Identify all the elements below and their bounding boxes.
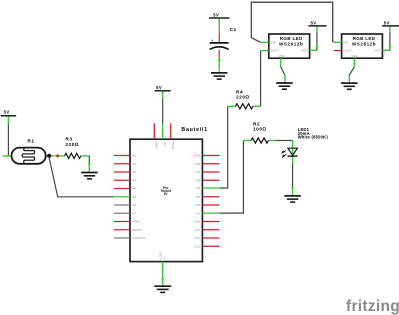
wire C1 to ground — [218, 59, 220, 71]
pin D11 — [202, 229, 219, 231]
wire R4 to U2 DOUT — [260, 51, 262, 107]
ground GND1 (below R3) — [81, 173, 98, 179]
svg-text:DTR/RTS: DTR/RTS — [132, 236, 145, 240]
svg-text:R3: R3 — [65, 137, 72, 143]
pin D3 — [202, 171, 219, 173]
pin VDD U2 — [310, 49, 317, 51]
svg-text:VDD: VDD — [374, 49, 381, 53]
svg-text:VSS: VSS — [279, 54, 285, 58]
svg-text:A0: A0 — [132, 154, 136, 158]
svg-text:RXD: RXD — [194, 154, 201, 158]
svg-text:C1: C1 — [230, 27, 237, 33]
pin VBUS (top) — [170, 123, 172, 139]
pin A6 — [114, 204, 130, 206]
pin TXD — [202, 163, 219, 165]
pin D12 — [202, 237, 219, 239]
pin VSS U2 — [280, 58, 282, 66]
capacitor C1 — [210, 25, 237, 59]
svg-text:5V: 5V — [4, 110, 10, 115]
junction node (R1/R3/A5 wire) — [47, 154, 51, 158]
svg-text:TXD: TXD — [194, 162, 201, 166]
svg-text:DOUT: DOUT — [271, 49, 280, 53]
svg-text:5V: 5V — [213, 12, 219, 17]
power 5V symbol P3 (above C1) — [209, 12, 229, 25]
svg-text:WS2812b: WS2812b — [352, 41, 376, 46]
pin A1 — [114, 163, 130, 165]
pin VSS U3 — [353, 58, 355, 67]
pin D4 — [202, 179, 219, 181]
svg-text:WS2812b: WS2812b — [279, 41, 303, 46]
pin D10 — [202, 221, 219, 223]
resistor R4 — [228, 89, 261, 109]
wire D9 to R2 — [220, 141, 244, 214]
svg-text:5V: 5V — [156, 85, 162, 90]
svg-text:A7: A7 — [132, 211, 136, 215]
wire U2 VDD to 5V — [316, 33, 318, 51]
pin RESET — [114, 229, 130, 231]
wire U3 VSS to ground — [349, 67, 354, 75]
photoresistor R1 — [3, 139, 54, 164]
svg-text:D11: D11 — [195, 228, 201, 232]
pin D6 — [202, 196, 219, 198]
pin A7 — [114, 212, 130, 214]
pin DTR/RTS — [114, 237, 130, 239]
pin GND (bottom of U1) — [162, 262, 164, 286]
svg-text:A1: A1 — [132, 162, 136, 166]
pin DOUT U3 (unconnected) — [334, 50, 342, 52]
svg-text:100Ω: 100Ω — [253, 127, 267, 133]
svg-text:Bauteil1: Bauteil1 — [181, 127, 208, 133]
pin number marks U3 — [337, 45, 386, 66]
svg-text:RESET: RESET — [132, 228, 142, 232]
svg-text:fritzing: fritzing — [346, 298, 399, 315]
resistor R3 — [54, 137, 90, 159]
wire U2 VSS to ground — [281, 67, 285, 76]
pin A0 — [114, 155, 130, 157]
svg-text:DOUT: DOUT — [343, 49, 352, 53]
pin A5 (connected) — [113, 196, 130, 198]
svg-text:A6: A6 — [132, 203, 136, 207]
power 5V symbol P2 (above U1) — [155, 85, 171, 100]
wire U3 VDD to 5V — [389, 33, 391, 50]
svg-text:VDD: VDD — [301, 49, 308, 53]
svg-text:A3: A3 — [132, 178, 136, 182]
svg-text:A4: A4 — [132, 187, 136, 191]
pin DIN U3 — [334, 41, 342, 43]
svg-text:D9: D9 — [196, 211, 200, 215]
svg-text:D12: D12 — [194, 236, 200, 240]
svg-text:RGB LED: RGB LED — [280, 36, 303, 41]
svg-text:GND: GND — [159, 251, 163, 259]
svg-text:D6: D6 — [196, 195, 200, 199]
svg-text:R2: R2 — [253, 121, 260, 127]
svg-text:220Ω: 220Ω — [236, 95, 250, 101]
pin +5V (top) — [162, 123, 164, 139]
pin VDD U3 — [382, 49, 390, 51]
svg-text:D13: D13 — [194, 244, 200, 248]
svg-text:White (6500K): White (6500K) — [298, 135, 329, 140]
pin A4 — [114, 188, 130, 190]
svg-text:A2: A2 — [132, 170, 136, 174]
svg-text:R1: R1 — [27, 139, 34, 145]
svg-text:D5: D5 — [196, 186, 200, 190]
wire D5 to R4 — [220, 106, 228, 188]
ground GND2 (below U1) — [154, 286, 171, 292]
power 5V symbol P1 (top-left, feeds R1) — [1, 110, 17, 124]
pin number marks U2 — [264, 45, 313, 65]
resistor R2 — [243, 121, 276, 143]
wire R2 to LED1 — [276, 140, 293, 142]
svg-text:VSS: VSS — [351, 54, 357, 58]
svg-text:VBUS: VBUS — [171, 141, 175, 149]
wire R1 junction to A5 — [49, 156, 114, 197]
svg-text:AREF: AREF — [132, 220, 140, 224]
wire 5V to R1 left lead — [7, 124, 9, 156]
power 5V symbol P4 (for U2 VDD) — [308, 20, 326, 33]
svg-text:+5V: +5V — [163, 141, 167, 146]
svg-text:D8: D8 — [196, 203, 200, 207]
power 5V symbol P5 (for U3 VDD) — [382, 20, 399, 33]
svg-text:220Ω: 220Ω — [65, 142, 79, 148]
svg-text:D10: D10 — [194, 220, 200, 224]
svg-text:R4: R4 — [236, 89, 243, 95]
svg-text:DIN: DIN — [343, 40, 348, 44]
svg-text:RGB LED: RGB LED — [353, 36, 376, 41]
pin D5 (connected) — [202, 187, 220, 189]
pin AREF — [114, 221, 130, 223]
pin D9 (connected) — [202, 212, 220, 214]
ground GND4 (below C1) — [211, 73, 228, 79]
pin DOUT U2 — [261, 50, 269, 52]
ground GND5 (below U2) — [276, 83, 293, 89]
pin DIN U2 — [261, 41, 269, 43]
wire R3 to ground — [88, 156, 90, 164]
svg-text:D3: D3 — [196, 170, 200, 174]
svg-text:5V: 5V — [384, 20, 390, 25]
microcontroller U1 Pro Trinket 5V (Bauteil1) — [130, 127, 208, 262]
svg-text:DIN: DIN — [271, 40, 276, 44]
svg-text:+: + — [211, 38, 214, 43]
svg-text:A5: A5 — [132, 195, 136, 199]
LED LED1 20mA White (6500K) — [282, 127, 329, 163]
wire U2 DIN to U3 DIN (chain) — [251, 2, 333, 42]
pin A2 — [114, 171, 130, 173]
ground GND6 (below U3) — [341, 83, 358, 89]
pin VBAT (top) — [153, 123, 155, 139]
svg-text:5V: 5V — [311, 20, 317, 25]
svg-text:VBAT: VBAT — [155, 141, 159, 149]
RGB LED module U3 WS2812b #2 — [342, 34, 383, 58]
svg-text:D4: D4 — [196, 178, 200, 182]
wire 5V to +5V pin — [162, 99, 164, 124]
pin RXD — [202, 155, 219, 157]
RGB LED module U2 WS2812b #1 — [269, 34, 310, 58]
wire LED1 to ground — [292, 163, 294, 187]
pin D13 — [202, 245, 219, 247]
pin A3 — [114, 179, 130, 181]
wire endpoint dot — [52, 155, 56, 157]
ground GND3 (below LED1) — [284, 196, 300, 202]
pin D8 — [202, 204, 219, 206]
